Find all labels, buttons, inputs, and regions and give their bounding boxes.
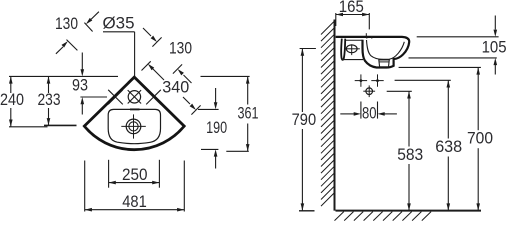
svg-text:233: 233 bbox=[38, 90, 61, 109]
dimension 361 bbox=[226, 76, 258, 151]
dimension 250 bbox=[109, 160, 160, 188]
dimension 340 bbox=[142, 61, 201, 114]
dimension 700 bbox=[399, 67, 493, 210]
wall hatching bbox=[321, 21, 335, 206]
tap hole symbol (circle with X) bbox=[128, 90, 141, 103]
dimension 130 left bbox=[55, 12, 99, 54]
233 bottom reference line bbox=[44, 124, 77, 126]
svg-text:105: 105 bbox=[482, 37, 507, 56]
svg-text:700: 700 bbox=[467, 129, 493, 148]
recess bottom edge bbox=[342, 59, 364, 61]
top extension line (vertex level) bbox=[9, 75, 250, 77]
tap hole notch on rim bbox=[367, 36, 372, 39]
trap outlet hole (circle with cross) bbox=[363, 85, 375, 97]
wall fixing hole symbol (ellipse with cross) bbox=[345, 44, 360, 55]
floor line bbox=[336, 210, 482, 212]
svg-text:190: 190 bbox=[206, 118, 227, 137]
fixing bolt hole right (cross) bbox=[371, 74, 383, 86]
alternative tap position X left bbox=[108, 90, 123, 105]
svg-text:93: 93 bbox=[72, 75, 88, 94]
165 extension tick at rim bbox=[365, 33, 367, 36]
dimension 233 bbox=[38, 76, 61, 125]
mounting flange profile bbox=[341, 39, 345, 60]
dimension 190 bbox=[198, 88, 227, 169]
240 bottom reference line bbox=[9, 126, 48, 128]
svg-text:250: 250 bbox=[122, 165, 148, 184]
dimension 790 bbox=[292, 49, 317, 211]
svg-text:638: 638 bbox=[435, 137, 462, 156]
svg-text:583: 583 bbox=[397, 145, 423, 164]
leader Ø35 (tap hole diameter) bbox=[103, 13, 137, 89]
dimension 583 bbox=[387, 91, 424, 210]
fixing bolt hole left (cross) bbox=[355, 74, 367, 86]
wall face line bbox=[334, 20, 336, 211]
105 bottom reference line bbox=[409, 57, 497, 59]
floor reference stub (790) bbox=[299, 210, 315, 212]
drain (crosshair circles) bbox=[121, 114, 146, 138]
dimension 130 right bbox=[143, 28, 192, 83]
basin outer rim (corner washbasin plan) bbox=[84, 77, 184, 150]
dimension 165 bbox=[336, 0, 370, 29]
svg-text:340: 340 bbox=[162, 78, 189, 97]
dimension 93 bbox=[72, 53, 88, 115]
dimension 638 bbox=[395, 80, 463, 210]
dimension 240 bbox=[0, 76, 24, 126]
svg-text:130: 130 bbox=[169, 39, 192, 58]
inner bowl profile bbox=[367, 40, 405, 59]
105 top reference line bbox=[417, 36, 499, 38]
svg-text:790: 790 bbox=[292, 110, 317, 129]
drain plug in section bbox=[379, 60, 390, 67]
svg-text:240: 240 bbox=[0, 90, 24, 109]
alternative tap position X right bbox=[146, 90, 161, 105]
svg-text:481: 481 bbox=[122, 192, 147, 211]
inner bowl outline bbox=[108, 109, 160, 143]
svg-text:Ø35: Ø35 bbox=[103, 13, 135, 32]
rim underside edge bbox=[345, 39, 362, 41]
dimension 80 bbox=[340, 102, 397, 123]
svg-text:130: 130 bbox=[55, 14, 78, 33]
svg-text:165: 165 bbox=[339, 0, 364, 16]
basin side profile outline bbox=[336, 37, 410, 68]
dimension 481 bbox=[85, 161, 185, 212]
svg-text:80: 80 bbox=[362, 103, 377, 122]
svg-text:361: 361 bbox=[238, 103, 259, 122]
overflow slot on bowl edge bbox=[130, 108, 140, 110]
93 lower reference line (tap hole level) bbox=[80, 96, 107, 98]
floor hatching bbox=[335, 212, 432, 221]
dimension 105 bbox=[482, 16, 507, 75]
